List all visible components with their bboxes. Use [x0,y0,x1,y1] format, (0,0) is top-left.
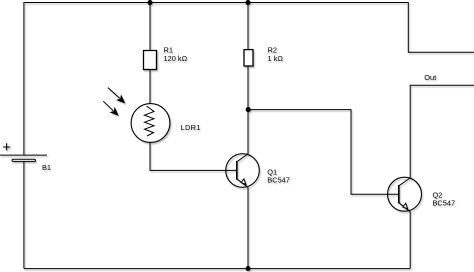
svg-text:BC547: BC547 [433,199,456,208]
wire R1 to LDR1 [149,70,151,104]
wire top rail to R2 [247,3,249,50]
node junction bottom rail at Q1 emitter [245,266,250,271]
wire Q2 emitter to bottom rail [409,212,411,269]
wire ground bottom rail [24,268,410,270]
svg-text:+: + [2,139,11,156]
wire battery negative to bottom rail [23,162,25,269]
wire top rail to R1 [149,3,151,51]
node junction top rail at R1 [147,0,152,5]
wire R2 to Q1 collector [247,66,249,154]
wire LDR1 to Q1 base [150,142,237,170]
svg-text:B1: B1 [42,163,51,172]
label Q1 value [267,168,290,185]
wire battery positive (left vertical) [23,2,25,155]
wire node A to Q2 base [248,110,399,195]
svg-text:R2: R2 [268,45,277,54]
battery B1 [0,155,47,161]
label R1 value [164,45,188,63]
resistor R1 [144,51,157,70]
wire Out to Q2 collector [410,85,474,178]
svg-text:120 kΩ: 120 kΩ [164,54,188,63]
wire V+ top rail with right drop to supply stub [24,3,474,53]
svg-text:BC547: BC547 [267,176,290,185]
wire Q1 emitter to bottom rail [247,187,249,268]
LDR LDR1 [103,88,170,143]
node junction top rail at R2 [245,0,250,5]
svg-text:Out: Out [424,73,436,82]
svg-text:R1: R1 [164,45,173,54]
transistor Q2 [388,177,422,212]
label R2 value [268,45,284,63]
node A junction below R2 [246,107,251,112]
svg-text:LDR1: LDR1 [181,123,201,132]
resistor R2 [244,50,253,66]
svg-text:1 kΩ: 1 kΩ [268,54,284,63]
transistor Q1 [226,154,260,188]
label Q2 value [433,191,456,208]
